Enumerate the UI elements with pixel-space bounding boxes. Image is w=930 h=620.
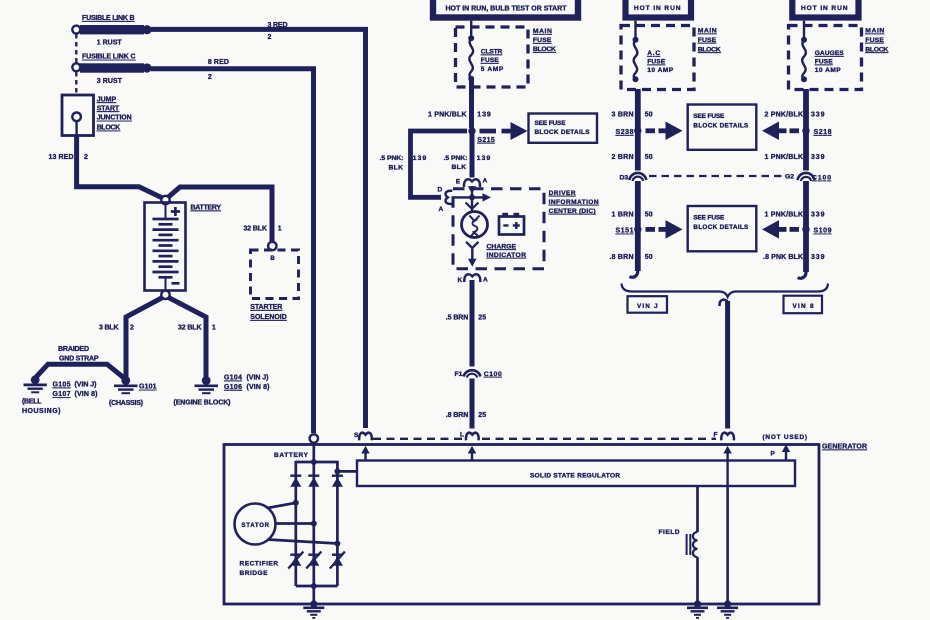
svg-text:.8 BRN: .8 BRN <box>610 254 634 261</box>
svg-text:(VIN 8): (VIN 8) <box>247 384 270 391</box>
svg-text:50: 50 <box>645 111 653 118</box>
svg-text:25: 25 <box>478 314 486 321</box>
battery plus sign <box>171 207 180 216</box>
svg-text:.5 BRN: .5 BRN <box>446 314 469 321</box>
connector D/A at DIC left <box>445 191 452 204</box>
svg-text:JUMP: JUMP <box>97 96 117 103</box>
svg-text:2 PNK/BLK: 2 PNK/BLK <box>765 111 804 118</box>
wire 139 loop to DIC pin D <box>411 131 468 197</box>
wire F through regulator <box>726 461 728 605</box>
wire K to F1 <box>470 280 475 367</box>
DIC internal chevron <box>466 203 479 209</box>
svg-text:C100: C100 <box>812 175 831 182</box>
svg-text:139: 139 <box>477 155 491 162</box>
wire F1 to generator L <box>470 379 475 429</box>
svg-text:HOT IN RUN: HOT IN RUN <box>634 5 681 12</box>
svg-text:2 BRN: 2 BRN <box>612 154 634 161</box>
rectifier right leg <box>336 461 339 586</box>
splice S109 <box>802 226 809 233</box>
wire bus to case ground <box>312 586 315 604</box>
starter solenoid terminal circle <box>268 242 276 250</box>
svg-text:INDICATOR: INDICATOR <box>487 252 527 259</box>
junction block terminal circle <box>72 113 81 122</box>
svg-text:SOLENOID: SOLENOID <box>250 314 286 321</box>
battery box <box>145 203 186 291</box>
svg-text:BLK: BLK <box>389 165 404 172</box>
label BRAIDED GND STRAP <box>58 346 99 363</box>
DIC internal wire from E <box>468 186 476 212</box>
label .5 PNK/BLK <box>444 155 468 171</box>
svg-text:STATOR: STATOR <box>242 523 270 529</box>
svg-text:G104: G104 <box>224 375 242 382</box>
junction dot rectifier-regulator <box>334 468 340 474</box>
svg-text:G106: G106 <box>224 384 242 391</box>
dashed connector face line right of L <box>482 438 716 440</box>
ground F wire <box>717 600 738 618</box>
wire feed to A/C fuse <box>634 21 636 40</box>
DIC lower chevron <box>466 242 479 248</box>
junction dot bottom bus <box>311 583 317 589</box>
wire battery positive to starter solenoid <box>168 187 273 242</box>
svg-text:BLOCK: BLOCK <box>533 46 556 53</box>
connector F at generator <box>721 433 734 441</box>
label MAIN FUSE BLOCK (A/C) <box>698 28 721 54</box>
ground G101 <box>114 376 138 393</box>
label GAUGES FUSE 10 AMP <box>815 50 845 74</box>
connector F1 C100 <box>464 370 481 377</box>
ground bell housing <box>24 375 47 392</box>
svg-text:A: A <box>483 276 488 283</box>
svg-text:FUSE: FUSE <box>647 59 666 66</box>
svg-text:BRAIDED: BRAIDED <box>58 346 89 353</box>
svg-text:(NOT USED): (NOT USED) <box>763 434 808 441</box>
svg-text:B: B <box>270 255 275 262</box>
rectifier bottom bus <box>296 585 338 588</box>
dashed connector face line left of L <box>373 438 462 440</box>
DIC battery icon <box>499 213 524 235</box>
svg-text:339: 339 <box>811 254 825 261</box>
ground G104 <box>195 376 219 393</box>
rectifier top bus <box>296 461 338 464</box>
feed box HOT IN RUN (A/C) <box>626 0 692 18</box>
junction dot stator top <box>293 500 299 506</box>
label SEE FUSE BLOCK DETAILS (upper right) <box>693 113 749 129</box>
svg-text:VIN J: VIN J <box>637 303 658 310</box>
feed box HOT IN RUN BULB TEST OR START <box>433 0 578 18</box>
svg-text:13 RED: 13 RED <box>49 154 74 161</box>
svg-text:FUSIBLE LINK B: FUSIBLE LINK B <box>82 15 135 22</box>
label SEE FUSE BLOCK DETAILS (middle) <box>535 120 591 136</box>
junction dot stator bottom <box>334 541 340 547</box>
svg-text:BATTERY: BATTERY <box>191 205 222 212</box>
fusible link C terminal circle <box>72 63 80 71</box>
wire regulator to field coil <box>696 486 699 532</box>
connector D3 <box>629 173 646 181</box>
svg-text:FUSE: FUSE <box>533 37 552 44</box>
jump start junction block box <box>62 95 94 136</box>
svg-text:.8 BRN: .8 BRN <box>446 412 469 419</box>
svg-text:FUSE: FUSE <box>865 37 884 44</box>
svg-text:(VIN J): (VIN J) <box>75 382 97 389</box>
label G105 (VIN J) <box>53 382 97 389</box>
svg-text:339: 339 <box>811 154 825 161</box>
diode top left <box>290 476 301 487</box>
main fuse block dashed box (gauges) <box>789 26 862 90</box>
svg-text:JUNCTION: JUNCTION <box>97 115 132 122</box>
svg-text:2: 2 <box>208 74 212 81</box>
svg-text:50: 50 <box>645 154 653 161</box>
label G107 (VIN 8) <box>53 391 98 398</box>
stator lead bottom <box>268 540 338 544</box>
svg-text:MAIN: MAIN <box>865 28 884 35</box>
lamp internal filament <box>470 216 480 238</box>
svg-text:3 BRN: 3 BRN <box>612 111 634 118</box>
svg-text:(VIN 8): (VIN 8) <box>75 391 98 398</box>
svg-text:F: F <box>714 431 718 438</box>
VIN 8 box <box>784 296 823 314</box>
svg-text:G105: G105 <box>53 382 71 389</box>
svg-text:HOUSING): HOUSING) <box>22 408 61 415</box>
svg-text:8 RED: 8 RED <box>208 59 229 66</box>
connector L at generator <box>466 433 479 441</box>
svg-text:BLOCK: BLOCK <box>97 125 121 132</box>
label A.C FUSE 10 AMP <box>647 50 674 74</box>
diode bottom left <box>288 552 303 569</box>
braided ground strap <box>35 364 123 378</box>
svg-text:139: 139 <box>477 111 491 118</box>
wire end hook (A/C) <box>630 266 638 277</box>
svg-text:D3: D3 <box>620 174 629 181</box>
svg-text:25: 25 <box>478 412 486 419</box>
wire S215 to DIC pin E <box>470 131 475 178</box>
svg-text:1 BRN: 1 BRN <box>612 212 634 219</box>
svg-text:10 AMP: 10 AMP <box>815 67 842 74</box>
connector K/A below DIC <box>464 274 480 282</box>
diode bottom right <box>330 552 345 569</box>
svg-text:2: 2 <box>130 324 134 331</box>
svg-text:G2: G2 <box>785 174 794 181</box>
feed box HOT IN RUN (gauges) <box>792 0 858 18</box>
charge indicator lamp <box>462 212 488 238</box>
svg-text:HOT IN RUN, BULB TEST OR START: HOT IN RUN, BULB TEST OR START <box>446 6 568 13</box>
label MAIN FUSE BLOCK (gauges) <box>865 28 888 54</box>
svg-text:P: P <box>771 450 776 457</box>
svg-text:BLOCK: BLOCK <box>865 46 888 53</box>
svg-text:SEE FUSE: SEE FUSE <box>535 120 567 127</box>
svg-text:C100: C100 <box>484 371 502 378</box>
svg-text:32 BLK: 32 BLK <box>244 225 268 232</box>
svg-text:A: A <box>439 206 444 213</box>
fuse CLSTR 5A element <box>468 35 474 81</box>
label SEE FUSE BLOCK DETAILS (lower right) <box>693 215 749 231</box>
svg-text:CLSTR: CLSTR <box>481 49 503 56</box>
ground rectifier <box>303 600 324 618</box>
svg-text:CENTER (DIC): CENTER (DIC) <box>549 208 596 215</box>
svg-text:2: 2 <box>268 34 272 41</box>
label RECTIFIER BRIDGE <box>240 561 279 577</box>
label DRIVER INFORMATION CENTER (DIC) <box>549 190 599 215</box>
wire 3 RED (to generator S) <box>151 29 366 428</box>
diode top right <box>332 476 343 487</box>
wire feed to cluster fuse <box>470 21 472 38</box>
svg-text:START: START <box>97 105 120 112</box>
connector G2 C100 <box>798 173 815 181</box>
dashed arrow to fuse details (middle) <box>480 122 528 140</box>
svg-text:S218: S218 <box>814 129 832 136</box>
label STARTER SOLENOID <box>250 304 286 321</box>
svg-text:(ENGINE BLOCK): (ENGINE BLOCK) <box>174 399 231 406</box>
generator box <box>224 445 819 605</box>
fusible link C symbol <box>80 63 152 72</box>
label CLSTR FUSE 5 AMP <box>481 49 504 73</box>
DIC internal arrow right <box>453 193 492 201</box>
svg-text:A.C: A.C <box>647 50 660 57</box>
solid state regulator box <box>357 461 795 487</box>
svg-text:SEE FUSE: SEE FUSE <box>693 113 725 120</box>
arrow into regulator at S <box>361 446 369 461</box>
DIC internal junction <box>469 194 475 200</box>
DIC lower wire with arrow <box>468 248 477 267</box>
svg-text:DRIVER: DRIVER <box>549 190 576 197</box>
label JUMP START JUNCTION BLOCK <box>97 96 132 131</box>
svg-text:1 PNK/BLK: 1 PNK/BLK <box>428 111 467 118</box>
wire feed to gauges fuse <box>803 21 805 40</box>
svg-text:FIELD: FIELD <box>659 529 680 536</box>
svg-text:S238: S238 <box>616 129 634 136</box>
svg-text:BLOCK DETAILS: BLOCK DETAILS <box>693 224 749 231</box>
fuse GAUGES 10A element <box>801 37 807 82</box>
see fuse block details box (lower right) <box>688 206 757 251</box>
svg-text:FUSIBLE LINK C: FUSIBLE LINK C <box>82 54 136 61</box>
arrow into regulator at L <box>468 446 476 461</box>
svg-text:RECTIFIER: RECTIFIER <box>240 561 279 568</box>
svg-text:FUSE: FUSE <box>481 57 500 64</box>
diode top mid <box>308 476 319 487</box>
svg-text:50: 50 <box>645 254 653 261</box>
main fuse block dashed box (cluster) <box>456 27 529 87</box>
svg-text:(CHASSIS): (CHASSIS) <box>109 400 143 407</box>
rectifier left leg <box>294 461 297 586</box>
svg-text:MAIN: MAIN <box>533 28 552 35</box>
svg-text:3 RED: 3 RED <box>268 22 288 29</box>
svg-text:50: 50 <box>645 212 653 219</box>
wire end hook (gauges) <box>798 267 806 278</box>
dashed arrow to fuse details (S218) <box>762 122 799 141</box>
svg-text:MAIN: MAIN <box>698 28 717 35</box>
svg-text:D: D <box>438 186 443 193</box>
label CHARGE INDICATOR <box>487 243 527 258</box>
svg-text:139: 139 <box>413 155 427 162</box>
svg-text:F1: F1 <box>455 371 463 378</box>
svg-text:FUSE: FUSE <box>698 37 717 44</box>
connector S at generator <box>359 433 372 441</box>
svg-text:G101: G101 <box>139 384 157 391</box>
svg-text:339: 339 <box>811 212 825 219</box>
svg-text:(BELL: (BELL <box>22 399 42 406</box>
svg-text:INFORMATION: INFORMATION <box>549 199 599 206</box>
svg-text:3 BLK: 3 BLK <box>99 324 119 331</box>
stator winding circle <box>235 504 276 545</box>
svg-text:.8 PNK BLK: .8 PNK BLK <box>763 254 803 261</box>
dashed arrow to fuse details (S109) <box>762 220 799 239</box>
svg-text:BLOCK: BLOCK <box>698 46 721 53</box>
svg-text:SOLID STATE REGULATOR: SOLID STATE REGULATOR <box>530 472 620 479</box>
wire fuse to S215 <box>469 79 474 128</box>
svg-text:1 RUST: 1 RUST <box>97 40 123 47</box>
svg-text:S215: S215 <box>477 137 495 144</box>
fusible link B terminal circle <box>72 26 80 34</box>
svg-text:3 RUST: 3 RUST <box>97 78 123 85</box>
dashed wire link C to junction block <box>75 72 77 95</box>
wire 8 RED (to generator battery terminal) <box>151 69 314 433</box>
label MAIN FUSE BLOCK <box>533 28 556 53</box>
svg-text:1 PNK/BLK: 1 PNK/BLK <box>765 154 804 161</box>
svg-text:CHARGE: CHARGE <box>487 243 517 250</box>
battery positive terminal circle <box>161 196 169 204</box>
svg-text:E: E <box>456 179 461 186</box>
svg-text:.5 PNK:: .5 PNK: <box>444 155 468 162</box>
svg-text:GAUGES: GAUGES <box>815 50 845 57</box>
wire junction block internal <box>75 121 77 135</box>
dashed wire D3 to G2 <box>649 175 783 177</box>
svg-text:BLK: BLK <box>452 164 467 171</box>
svg-text:5 AMP: 5 AMP <box>481 66 504 73</box>
field coil <box>687 532 698 557</box>
battery minus sign <box>172 282 180 285</box>
label (BELL HOUSING) <box>22 399 61 415</box>
svg-text:GENERATOR: GENERATOR <box>822 444 867 451</box>
svg-text:BLOCK DETAILS: BLOCK DETAILS <box>693 122 749 129</box>
main fuse block dashed box (A/C) <box>621 26 694 90</box>
battery internal plates <box>153 204 179 291</box>
see fuse block details box (middle) <box>529 114 598 143</box>
svg-text:2: 2 <box>84 154 88 161</box>
svg-text:VIN 8: VIN 8 <box>793 303 814 310</box>
label .5 PNK/BLK (loop) <box>380 155 404 172</box>
arrow at P (not used) <box>782 444 790 460</box>
wire rectifier to regulator <box>337 470 357 473</box>
see fuse block details box (upper right) <box>688 105 757 150</box>
wire 13 RED junction block to battery positive <box>77 135 164 199</box>
svg-text:FUSE: FUSE <box>815 59 834 66</box>
ground field <box>687 600 708 618</box>
junction dot stator mid <box>311 521 317 527</box>
junction dot bus <box>311 459 317 465</box>
generator battery terminal circle <box>310 434 318 442</box>
svg-text:339: 339 <box>811 111 825 118</box>
svg-text:32 BLK: 32 BLK <box>178 324 202 331</box>
wire A/C fuse down to VIN J end <box>635 89 641 271</box>
battery negative terminal circle <box>161 291 169 299</box>
svg-text:BATTERY: BATTERY <box>274 452 309 459</box>
svg-text:BRIDGE: BRIDGE <box>240 570 269 577</box>
stator lead top <box>268 503 296 508</box>
svg-text:K: K <box>458 277 463 284</box>
dashed wire link B to link C <box>75 34 77 63</box>
wire battery negative to G101 <box>126 298 163 379</box>
diode bottom mid <box>306 552 321 569</box>
svg-text:10 AMP: 10 AMP <box>647 67 674 74</box>
DIC dashed box <box>453 189 544 269</box>
fusible link B symbol <box>80 25 152 34</box>
rectifier mid leg <box>312 462 315 586</box>
stator lead mid <box>276 522 314 525</box>
svg-text:GND STRAP: GND STRAP <box>59 356 99 363</box>
svg-text:G107: G107 <box>53 391 71 398</box>
connector E/A at DIC <box>464 179 480 187</box>
starter solenoid dashed box <box>251 250 299 299</box>
svg-text:L: L <box>460 431 464 438</box>
splice S238 <box>634 127 641 134</box>
svg-text:HOT IN RUN: HOT IN RUN <box>801 5 848 12</box>
dashed arrow to fuse details (S238) <box>646 122 683 141</box>
splice S215 <box>468 127 475 134</box>
VIN J box <box>628 296 668 313</box>
splice S218 <box>802 127 809 134</box>
wire gauges fuse down to VIN 8 end <box>803 89 809 272</box>
brace joining VIN wires <box>622 284 829 297</box>
svg-text:SEE FUSE: SEE FUSE <box>693 215 725 222</box>
svg-text:1: 1 <box>212 324 216 331</box>
wire brace to generator F <box>719 300 727 429</box>
wire battery negative to G104 <box>169 298 207 379</box>
svg-text:1 PNK/BLK: 1 PNK/BLK <box>765 212 804 219</box>
dashed arrow to fuse details (S151) <box>646 220 683 239</box>
wire battery terminal into rectifier bus <box>312 443 315 462</box>
splice S151 <box>634 226 641 233</box>
svg-text:BLOCK DETAILS: BLOCK DETAILS <box>535 129 591 136</box>
svg-text:A: A <box>483 178 488 185</box>
svg-text:.5 PNK:: .5 PNK: <box>380 155 404 162</box>
svg-text:1: 1 <box>278 225 282 232</box>
svg-text:S109: S109 <box>814 228 832 235</box>
fuse A/C 10A element <box>633 37 639 82</box>
svg-text:(VIN J): (VIN J) <box>247 375 269 382</box>
label G106 (VIN 8) <box>224 384 270 391</box>
svg-text:S151: S151 <box>616 228 634 235</box>
arrow at F through regulator to ground <box>723 446 731 604</box>
wire field coil to ground <box>696 557 699 604</box>
label G104 (VIN J) <box>224 375 269 382</box>
svg-text:STARTER: STARTER <box>250 304 282 311</box>
